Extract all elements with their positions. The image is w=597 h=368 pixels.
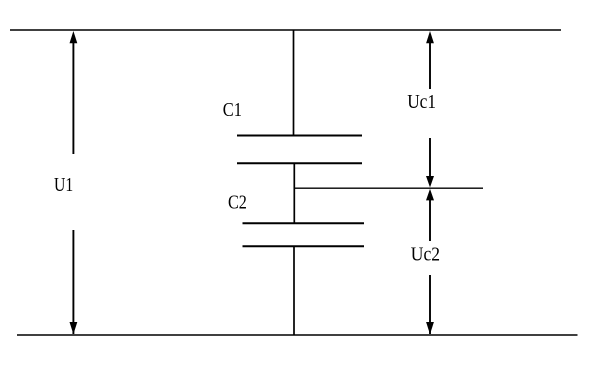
svg-text:C1: C1 [223,99,242,121]
svg-text:C2: C2 [228,192,247,214]
svg-text:Uc2: Uc2 [411,243,440,265]
svg-text:Uc1: Uc1 [407,91,436,113]
svg-text:U1: U1 [54,174,73,196]
